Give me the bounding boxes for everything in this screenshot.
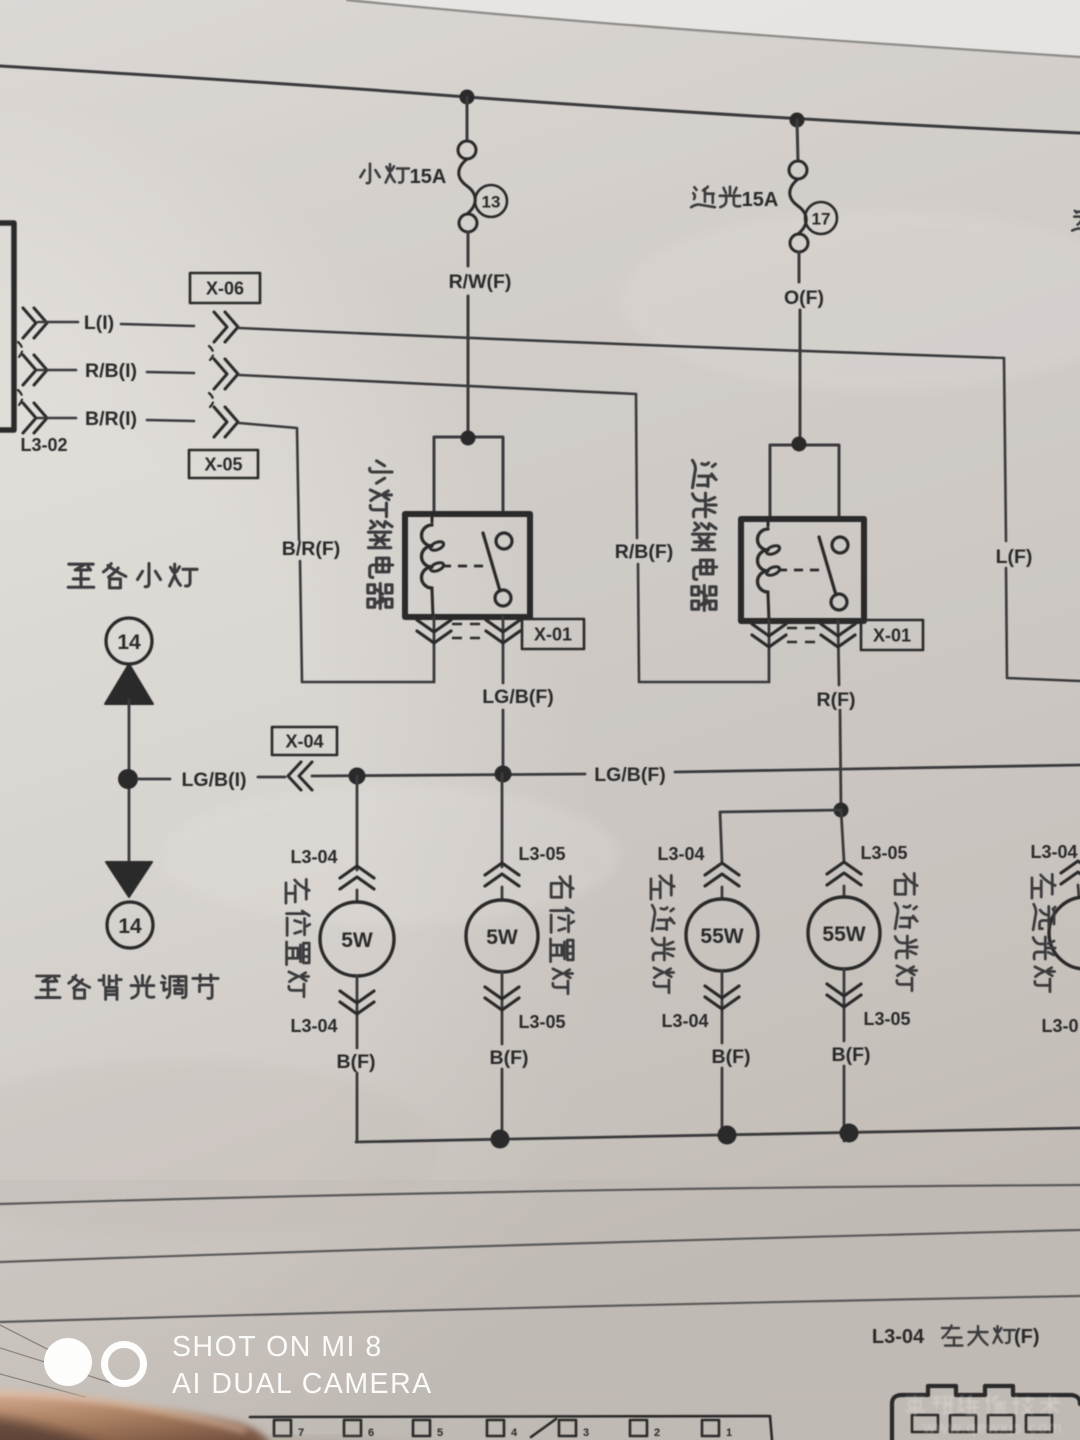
pin 1 (702, 1420, 719, 1436)
svg-text:B(F): B(F) (832, 1044, 871, 1066)
node: P2 ground (491, 1130, 510, 1149)
svg-text:L3-04: L3-04 (290, 847, 337, 867)
svg-text:R/B(F): R/B(F) (615, 541, 673, 563)
wire: relay 1 top bar (434, 437, 503, 514)
svg-text:55W: 55W (700, 925, 743, 948)
svg-text:3: 3 (583, 1427, 589, 1439)
finger (0, 1391, 274, 1440)
connector L3-02 pin chevrons (23, 308, 47, 338)
svg-text:2: 2 (654, 1427, 660, 1439)
svg-text:R(F): R(F) (817, 689, 856, 711)
connector label X-04 (272, 727, 337, 755)
node: low beam split (834, 803, 849, 818)
fuse number 17 (805, 202, 837, 234)
svg-text:L3-05: L3-05 (860, 843, 907, 863)
connector X-01 chevrons under relay 2 (768, 621, 771, 682)
svg-text:B(F): B(F) (337, 1051, 376, 1073)
wire L(I) to right edge corner (239, 328, 1004, 358)
wire R/B(I) to corner (239, 375, 636, 394)
pin 7 (274, 1420, 291, 1436)
svg-text:L3-05: L3-05 (518, 1012, 565, 1032)
svg-text:1: 1 (726, 1427, 732, 1439)
wire label R/W(F) (467, 232, 470, 266)
node: supply tap for fuse 17 (790, 113, 805, 128)
pin 3 (559, 1420, 576, 1436)
wire LG/B(I) (138, 778, 170, 781)
svg-text:LG/B(F): LG/B(F) (482, 686, 553, 708)
fuse F13 小灯15A (458, 141, 476, 159)
ghost watermark 车辆维修技术 (906, 1395, 1060, 1415)
svg-text:L(I): L(I) (84, 312, 114, 334)
wire label O(F) (798, 252, 801, 282)
connector X-04 chevrons (288, 762, 312, 790)
circle 14 top (106, 618, 152, 664)
svg-text:5W: 5W (486, 926, 518, 949)
arrow down (106, 862, 152, 897)
svg-text:(F): (F) (1014, 1326, 1040, 1348)
connector L3-02 body (0, 223, 14, 430)
node: bus tap P2/relay1 out (495, 766, 512, 783)
label 至各背光调节 (36, 976, 60, 998)
connector face L3-04 (892, 1386, 1080, 1440)
svg-text:X-04: X-04 (285, 732, 323, 752)
node: P4 ground (840, 1124, 859, 1143)
label 至各小灯 (68, 564, 94, 587)
svg-text:X-05: X-05 (204, 455, 242, 475)
label 近光15A (691, 187, 715, 208)
svg-text:B/R(F): B/R(F) (282, 538, 340, 560)
svg-text:14: 14 (117, 631, 141, 654)
svg-text:13: 13 (482, 193, 501, 212)
svg-text:L3-0: L3-0 (1041, 1016, 1078, 1036)
label 小灯继电器 (370, 461, 392, 483)
svg-text:X-01: X-01 (534, 625, 572, 645)
wire B/R(I) corner down (239, 423, 299, 540)
relay U1 小灯继电器 box (405, 514, 530, 617)
bulb 右近光灯 55W (P4) (827, 862, 861, 885)
relay U2 internals (coil + switch) (758, 529, 768, 592)
table rule 1 (0, 1185, 1080, 1204)
svg-text:6: 6 (368, 1427, 374, 1439)
fuse F17 近光15A (789, 161, 807, 179)
bulb 左位置灯 5W (P1) (356, 776, 359, 870)
svg-text:LG/B(F): LG/B(F) (594, 764, 665, 786)
svg-text:7: 7 (298, 1427, 304, 1439)
wire: supply to fuse 17 (797, 120, 798, 161)
node: O feed at relay 2 (792, 437, 807, 452)
svg-text:L3-05: L3-05 (518, 844, 565, 864)
watermark circle ring (105, 1345, 144, 1384)
svg-text:B/R(I): B/R(I) (85, 408, 137, 430)
svg-text:B(F): B(F) (490, 1047, 529, 1069)
svg-text:15A: 15A (410, 166, 447, 188)
node: supply tap for fuse 13 (460, 90, 475, 105)
finger shadow on paper (248, 1438, 418, 1440)
svg-text:14: 14 (118, 915, 142, 938)
watermark circle filled (44, 1338, 92, 1386)
bulb 左近光灯 55W (P3) (705, 863, 739, 886)
svg-text:17: 17 (812, 210, 831, 229)
relay U1 internals (coil + switch) (422, 525, 433, 588)
svg-text:B(F): B(F) (712, 1046, 751, 1068)
connector label X-05 (189, 450, 258, 478)
node: LG/B(I) tap (118, 769, 138, 789)
svg-text:L3-05: L3-05 (863, 1009, 910, 1029)
arrow shaft (128, 700, 131, 864)
wire LG/B(F) bus (312, 774, 585, 776)
svg-text:L3-04: L3-04 (872, 1326, 925, 1348)
connector X-06 chevrons on L(I) (214, 312, 238, 342)
connector X-05 chevrons on B/R(I) (214, 407, 238, 437)
table rule 3 (0, 1296, 1080, 1322)
connector label X-01 (left) (522, 619, 584, 649)
node: P3 ground (718, 1126, 737, 1145)
svg-text:L(F): L(F) (996, 546, 1033, 568)
svg-text:L3-04: L3-04 (657, 844, 704, 864)
circle 14 bottom (107, 902, 153, 948)
svg-text:5W: 5W (341, 929, 373, 952)
wire to left low beam (720, 810, 841, 862)
svg-text:X-06: X-06 (206, 279, 244, 299)
wire L(I) from connector to X-06 (38, 321, 78, 324)
bulb 左远光灯 partial (P5) (1061, 861, 1080, 884)
connector label X-01 (right) (861, 620, 923, 650)
svg-text:X-01: X-01 (873, 626, 911, 646)
wire: relay 2 top bar (770, 445, 839, 519)
wire L(F) vertical at right (1004, 358, 1080, 681)
arrow up (105, 664, 153, 704)
partial label 远 (right edge) (1072, 211, 1080, 232)
wire to right low beam (841, 810, 844, 861)
wire B(F) ground bus (356, 1128, 1080, 1142)
wire: supply to fuse 13 (466, 97, 469, 141)
connector pin row top edge (250, 1416, 772, 1440)
label 近光继电器 (692, 460, 716, 487)
wire B/R(I) from connector (38, 417, 76, 420)
table rule 2 (0, 1230, 1080, 1262)
pin 6 (344, 1420, 361, 1436)
svg-text:AI DUAL CAMERA: AI DUAL CAMERA (172, 1368, 433, 1400)
svg-text:L3-04: L3-04 (290, 1016, 337, 1036)
svg-text:4: 4 (511, 1427, 518, 1439)
svg-text:R/B(I): R/B(I) (85, 360, 137, 382)
svg-text:R/W(F): R/W(F) (449, 271, 512, 293)
relay U2 近光继电器 box (741, 519, 864, 621)
page edge line (347, 0, 1080, 57)
pin 2 (630, 1420, 647, 1436)
svg-text:www.qewxjs.com: www.qewxjs.com (922, 1419, 1063, 1437)
svg-text:LG/B(I): LG/B(I) (182, 769, 247, 791)
wire R/B(I) from connector (38, 369, 76, 372)
connector X-01 chevrons under relay 1 (433, 617, 436, 682)
key slash (531, 1419, 556, 1437)
svg-text:L3-04: L3-04 (661, 1011, 708, 1031)
pin 4 (487, 1420, 504, 1436)
pin 5 (413, 1420, 430, 1436)
connector label X-06 (190, 273, 260, 303)
hair scratches (0, 1325, 118, 1412)
svg-text:L3-04: L3-04 (1030, 842, 1077, 862)
svg-text:15A: 15A (742, 189, 779, 211)
fuse number 13 (475, 185, 507, 217)
wire: battery supply rail (0, 66, 1080, 133)
svg-text:55W: 55W (822, 923, 865, 946)
connector X-06 chevrons on R/B(I) (214, 359, 238, 389)
svg-text:L3-02: L3-02 (20, 435, 67, 455)
svg-text:O(F): O(F) (784, 287, 824, 309)
svg-text:5: 5 (437, 1427, 443, 1439)
node: bus tap P1 (349, 768, 366, 785)
label 小灯15A (360, 164, 379, 184)
svg-text:SHOT ON MI 8: SHOT ON MI 8 (172, 1331, 383, 1363)
bulb 右位置灯 5W (P2) (501, 774, 504, 867)
